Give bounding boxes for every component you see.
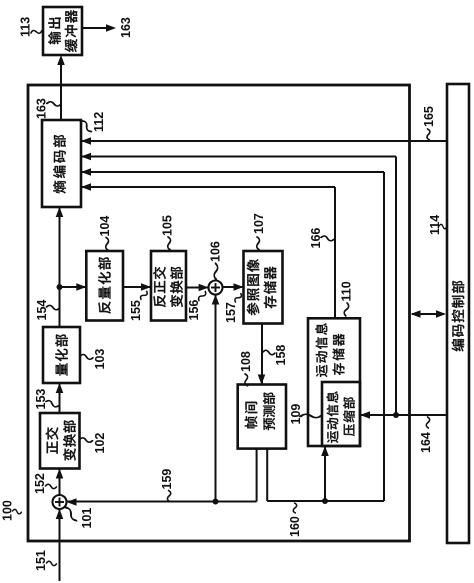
- label 104: [98, 216, 112, 251]
- svg-text:151: 151: [34, 550, 48, 571]
- wire 166 U110 to U112: [81, 183, 335, 318]
- label 159: [160, 469, 174, 502]
- label 155: [129, 290, 148, 321]
- wire 163 from U112 to U113: [57, 55, 65, 120]
- label 163 output: [119, 17, 133, 38]
- svg-text:156: 156: [187, 300, 201, 321]
- label 112: [81, 112, 106, 133]
- svg-text:106: 106: [209, 241, 223, 262]
- wire 157 A106 to U107: [223, 283, 244, 291]
- label 101: [64, 506, 94, 528]
- label 105: [161, 215, 175, 250]
- svg-text:158: 158: [274, 345, 288, 366]
- svg-text:113: 113: [19, 17, 33, 37]
- wire 164 U114 to U109: [360, 411, 447, 419]
- label 106: [209, 241, 223, 279]
- svg-text:105: 105: [161, 215, 175, 236]
- wire 113 output: [82, 24, 116, 32]
- wire 154 U103 to U112 and branch: [56, 207, 64, 327]
- label 158: [263, 345, 288, 366]
- wire 151 input: [56, 509, 64, 581]
- big box 100 encoder: [28, 85, 410, 541]
- label 156: [187, 290, 207, 320]
- wire 156 U105 to A106: [186, 284, 209, 292]
- label 151: [34, 550, 57, 571]
- label 110: [340, 281, 354, 316]
- label 164: [419, 417, 433, 453]
- wire 152 A101 to U102: [56, 469, 64, 496]
- wire 160 motion info from U108: [267, 446, 384, 504]
- svg-text:159: 159: [160, 469, 174, 490]
- box U107 reference picture memory 参照图像存储器: [244, 251, 283, 324]
- adder A101: [53, 495, 67, 509]
- svg-text:103: 103: [93, 349, 107, 370]
- box U104 inverse quantizer 反量化部: [86, 251, 123, 321]
- wire to U112 third from wire160: [81, 168, 384, 501]
- svg-text:157: 157: [224, 302, 238, 323]
- wire 158 U107 to U108: [258, 324, 266, 385]
- svg-text:152: 152: [33, 473, 47, 494]
- label 102: [79, 433, 107, 454]
- label 114: [428, 215, 447, 235]
- wire branch to U104: [60, 283, 87, 291]
- svg-text:163: 163: [35, 98, 49, 119]
- svg-text:112: 112: [92, 112, 106, 132]
- label 154: [35, 300, 60, 321]
- box U112 entropy coder 熵编码部: [42, 120, 81, 207]
- box U109 motion info compressor 运动信息压缩部: [322, 382, 360, 446]
- svg-text:110: 110: [340, 281, 354, 301]
- svg-text:107: 107: [252, 213, 266, 234]
- wire to U112 second from junction on 164: [81, 153, 396, 415]
- wire 153 U102 to U103: [56, 383, 64, 413]
- wire 165 U114 to U112: [81, 137, 447, 145]
- label 109: [289, 404, 322, 425]
- svg-text:153: 153: [34, 389, 48, 410]
- label 153: [34, 389, 59, 410]
- label 100: [1, 500, 22, 521]
- box U110 motion info memory 运动信息存储器: [308, 318, 360, 446]
- svg-text:101: 101: [80, 508, 94, 529]
- svg-text:102: 102: [93, 433, 107, 454]
- box U102 orthogonal transform 正交变换部: [40, 413, 80, 469]
- label 157: [224, 292, 242, 323]
- svg-text:160: 160: [288, 516, 302, 537]
- svg-text:165: 165: [422, 106, 436, 127]
- svg-text:108: 108: [239, 351, 253, 372]
- label 163 wire: [35, 98, 62, 119]
- label 103: [80, 349, 107, 370]
- label 107: [252, 213, 266, 250]
- svg-text:164: 164: [419, 432, 433, 453]
- double arrow box100 and U114: [411, 310, 447, 318]
- box U113 output buffer 输出缓冲器: [43, 7, 82, 55]
- box U108 inter prediction 帧间预测部: [238, 385, 286, 449]
- wire 159 prediction to A101 and A106: [67, 295, 257, 506]
- label 160: [288, 503, 302, 537]
- label 108: [239, 351, 253, 386]
- label 152: [33, 473, 57, 494]
- box U103 quantizer 量化部: [43, 327, 80, 383]
- svg-text:155: 155: [129, 300, 143, 321]
- box U114 coding controller 编码控制部: [447, 84, 469, 543]
- wire 155 U104 to U105: [123, 283, 151, 291]
- label 165: [422, 106, 436, 140]
- label 166: [309, 228, 334, 249]
- svg-text:163: 163: [119, 17, 133, 38]
- adder A106: [209, 281, 223, 295]
- label 113: [19, 17, 43, 37]
- svg-text:104: 104: [98, 216, 112, 237]
- box U105 inverse orthogonal transform 反正交变换部: [151, 251, 186, 321]
- svg-text:109: 109: [289, 404, 303, 425]
- svg-text:154: 154: [35, 300, 49, 321]
